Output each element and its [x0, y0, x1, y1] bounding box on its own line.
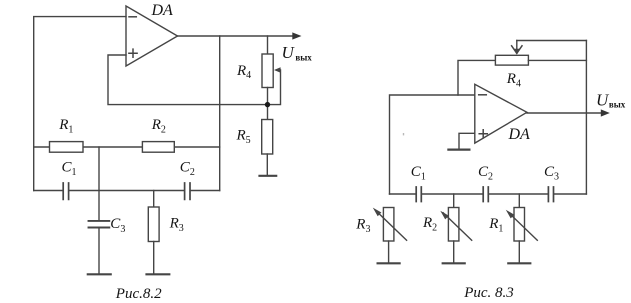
svg-text:C3: C3: [544, 164, 559, 183]
resistor R3 (left): [148, 207, 159, 242]
wire R5 to ground: [266, 154, 268, 176]
svg-text:R3: R3: [355, 217, 370, 235]
svg-text:C1: C1: [62, 160, 77, 179]
resistor R1: [50, 142, 84, 153]
wire R1 to ground (right): [518, 241, 520, 263]
svg-text:вых: вых: [609, 100, 626, 110]
ground below R3 (right): [378, 262, 400, 264]
wire R3 to ground (right): [388, 241, 390, 263]
wire vertical from output to RC network: [219, 36, 221, 191]
wire R1R2 junction down to C3: [98, 147, 100, 220]
wire R4 right branch (right): [528, 59, 586, 61]
resistor R5: [262, 120, 273, 155]
resistor R2 (right, adjustable): [440, 208, 471, 242]
svg-text:R1: R1: [488, 216, 503, 234]
wire R4 left branch (right): [458, 60, 495, 95]
wire noninverting input to ground (right): [459, 133, 475, 149]
wire output to R4 top: [267, 36, 269, 54]
wire wiper top to right rail: [517, 40, 587, 42]
svg-text:C1: C1: [411, 164, 426, 183]
resistor R4 (left, potentiometer): [262, 54, 273, 88]
resistor R1 (right, adjustable): [506, 208, 538, 242]
svg-text:Рис. 8.3: Рис. 8.3: [463, 285, 514, 301]
wire output (right): [527, 112, 602, 114]
wire C1-C2 row: [34, 190, 220, 192]
svg-text:U: U: [282, 43, 296, 62]
arrowhead wiper R4 (left): [274, 67, 281, 72]
svg-text:R2: R2: [422, 215, 437, 233]
wire stub to R1 (right): [518, 194, 520, 208]
output arrowhead (right): [601, 109, 610, 116]
resistor R3 (right, adjustable): [373, 208, 407, 242]
capacitor C2 (right): [483, 187, 488, 202]
wire inverting input (right): [390, 95, 475, 194]
output arrowhead (left): [292, 32, 301, 39]
resistor R4 (right, potentiometer): [495, 55, 528, 65]
wiper arrow of R4 (right): [512, 41, 522, 55]
wire feedback left vertical + top wire to inverting input: [34, 17, 126, 191]
stray speck: [403, 133, 404, 135]
capacitor C2: [185, 183, 190, 199]
resistor R2: [142, 142, 174, 153]
capacitor C1 (right): [416, 187, 421, 202]
wire stub to R2 (right): [453, 194, 455, 208]
svg-text:DA: DA: [151, 2, 174, 19]
capacitor C3: [89, 221, 110, 228]
svg-text:вых: вых: [295, 52, 312, 62]
wire R2 to ground (right): [453, 241, 455, 263]
wire C3 to ground: [98, 228, 100, 274]
ground at noninverting input (right): [448, 149, 469, 151]
op-amp DA (right): [475, 84, 527, 143]
wire output (left): [178, 35, 294, 37]
svg-text:R3: R3: [169, 216, 184, 234]
svg-text:R2: R2: [151, 117, 166, 135]
svg-text:U: U: [596, 91, 610, 110]
ground below R1 (right): [508, 262, 530, 264]
node divider tap (junction dot): [265, 102, 270, 107]
ground below R2 (right): [443, 262, 465, 264]
svg-text:Рис.8.2: Рис.8.2: [115, 286, 162, 302]
ground below R3 (left): [147, 273, 170, 275]
capacitor C3 (right): [548, 187, 553, 202]
wire capacitor row (right): [390, 193, 587, 195]
svg-text:R1: R1: [58, 117, 73, 135]
svg-text:DA: DA: [508, 126, 531, 143]
wire R1-R2 row: [34, 146, 220, 148]
wire R3 to ground (left): [153, 242, 155, 275]
svg-text:R5: R5: [236, 128, 251, 146]
svg-text:C2: C2: [180, 160, 195, 179]
capacitor C1: [63, 183, 68, 199]
svg-text:R4: R4: [236, 63, 251, 81]
ground below C3: [88, 273, 111, 275]
op-amp DA (left): [126, 6, 178, 66]
wire stub to R3 (left): [153, 191, 155, 208]
svg-text:C2: C2: [478, 164, 493, 183]
svg-text:C3: C3: [110, 216, 125, 235]
wire noninverting input to divider tap: [108, 55, 281, 105]
wire R4 bottom to node: [267, 88, 269, 120]
wire right rail vertical: [585, 41, 587, 195]
svg-text:R4: R4: [506, 71, 521, 89]
ground below R5: [260, 175, 277, 177]
